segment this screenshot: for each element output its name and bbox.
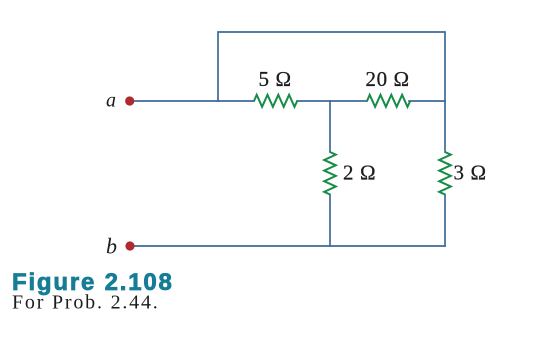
svg-text:20 Ω: 20 Ω — [366, 67, 410, 91]
svg-text:b: b — [106, 233, 117, 258]
svg-text:2 Ω: 2 Ω — [343, 161, 376, 185]
svg-text:5 Ω: 5 Ω — [259, 67, 292, 91]
svg-text:For Prob. 2.44.: For Prob. 2.44. — [12, 292, 160, 314]
svg-text:a: a — [106, 90, 116, 112]
svg-text:3 Ω: 3 Ω — [454, 161, 487, 185]
